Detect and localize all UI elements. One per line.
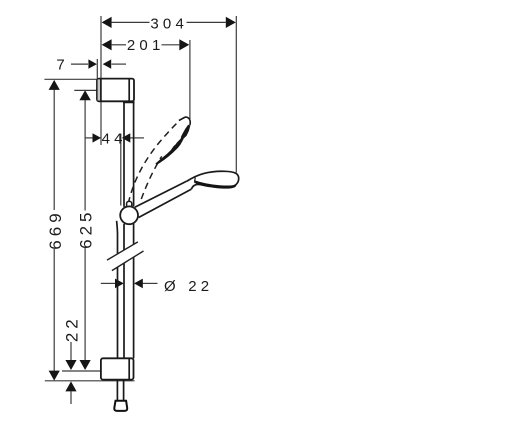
hand shower handle lower edge: [139, 189, 192, 217]
svg-text:44: 44: [102, 130, 127, 147]
svg-text:22: 22: [63, 315, 82, 342]
dim 7 arrows: [71, 63, 88, 65]
bottom bracket right cap line: [128, 359, 130, 380]
reference line 625 upper ref: [74, 89, 97, 91]
reference line A (bar lower end): [62, 370, 101, 372]
shower hose below break: [117, 267, 119, 358]
dim line 669 vertical: [53, 90, 55, 211]
svg-text:625: 625: [76, 209, 95, 249]
bar collar step under top bracket: [124, 101, 134, 102]
shower hose below bottom bracket: [116, 380, 118, 401]
svg-text:Ø 22: Ø 22: [164, 278, 213, 295]
extension line left lower segment (for dim 44): [100, 102, 102, 146]
dashed shower head tip outline: [179, 117, 190, 125]
dim line 201: [112, 44, 126, 46]
dashed hand shower left edge (upright position): [128, 123, 177, 203]
holder ball: [120, 206, 138, 224]
dim line 22 vertical: [70, 342, 72, 360]
dim line 625 vertical: [84, 100, 86, 211]
holder knob on ball: [127, 201, 132, 209]
dim 44 arrows: [85, 137, 93, 139]
hose end cone: [114, 401, 127, 411]
spray face of solid head (dark band): [194, 180, 236, 189]
head/handle joint tick: [194, 177, 197, 182]
hand shower handle upper edge: [135, 181, 187, 207]
slide bar right edge: [133, 102, 135, 206]
svg-text:7: 7: [56, 57, 64, 74]
break symbol diagonal 2: [112, 251, 144, 271]
top bracket right cap line: [128, 79, 130, 101]
dim Ø22 arrows: [101, 282, 116, 284]
extension line right for dim 304: [235, 16, 237, 173]
slide bar left edge: [123, 102, 125, 207]
extension line bracket outer left edge (for dim 7): [96, 59, 98, 79]
hand shower head (solid, horizontal): [187, 171, 239, 189]
extension line right for dim 201: [189, 40, 191, 119]
svg-text:201: 201: [127, 37, 165, 54]
dashed shower spray face (dark band): [155, 125, 190, 165]
top bracket left cap (shaded): [98, 79, 101, 100]
top wall bracket: [97, 79, 134, 102]
shower hose upper curve from holder: [116, 221, 119, 254]
extension line for dim 44 right (holder left edge): [120, 134, 122, 206]
extension line left (wall plate inner edge): [100, 16, 102, 79]
bottom wall bracket: [101, 358, 134, 379]
break symbol diagonal 1: [107, 242, 138, 260]
reference line B (669 lower ref): [45, 380, 135, 382]
svg-text:669: 669: [46, 209, 65, 249]
svg-text:304: 304: [150, 15, 188, 32]
dashed hand shower right edge (upright position): [141, 156, 161, 199]
reference line top (669 upper ref): [44, 78, 97, 80]
dim line 304: [112, 21, 150, 23]
